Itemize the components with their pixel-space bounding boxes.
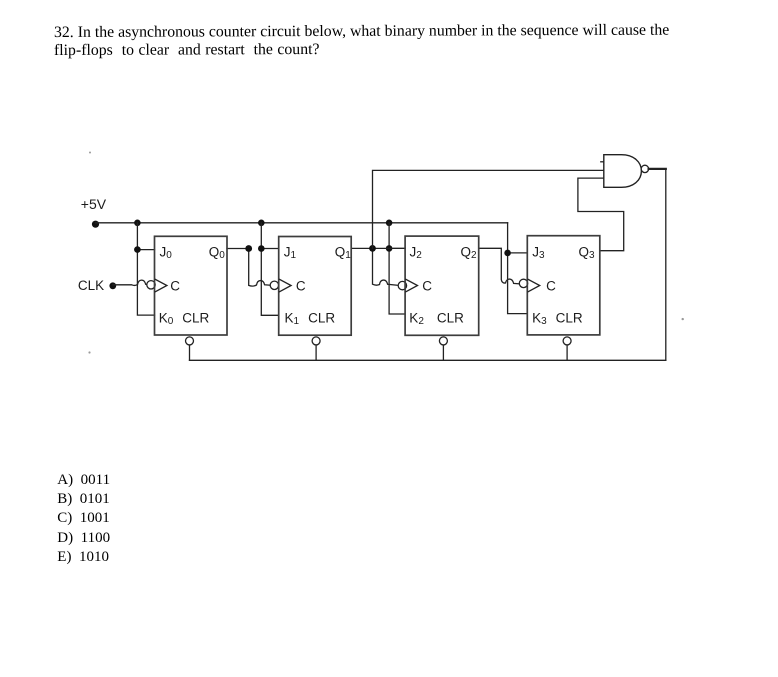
wire: Q1 up to NAND input A <box>373 170 604 248</box>
FF0 clock bubble <box>147 281 155 289</box>
svg-text:Q1: Q1 <box>335 245 352 262</box>
wire: +5V drop to J2/K2 <box>389 223 405 314</box>
answer D <box>57 530 110 547</box>
svg-text:K2CLR: K2CLR <box>409 310 464 327</box>
flip-flop U3 box <box>527 236 600 335</box>
svg-text:J0: J0 <box>160 245 173 262</box>
+5V terminal dot <box>92 221 99 228</box>
junction on rail at FF1 drop <box>258 220 265 227</box>
FF2 CLR bubble <box>439 337 447 345</box>
wire: Q1 to J2 rail segment <box>351 247 405 249</box>
svg-text:K0CLR: K0CLR <box>159 310 210 327</box>
question text line 1 <box>53 22 668 42</box>
answer C <box>57 510 110 527</box>
svg-text:C: C <box>422 278 432 293</box>
wire: riser to FF1 CLR <box>315 345 317 360</box>
FF0 clock triangle <box>155 279 167 292</box>
FF1 CLR bubble <box>312 337 320 345</box>
NAND gate U1 body <box>604 155 642 188</box>
wire: +5V drop to J3/K3 <box>508 223 528 314</box>
FF1 clock bubble <box>270 281 278 289</box>
wire: +5V power rail <box>96 222 508 224</box>
junction at J1 wire <box>258 245 265 252</box>
FF0 CLR bubble <box>186 337 194 345</box>
FF3 clock bubble <box>519 279 527 287</box>
junction at Q0 <box>245 245 252 252</box>
wire: Q0 to FF1 clock <box>227 249 270 287</box>
svg-text:K3CLR: K3CLR <box>532 310 583 327</box>
NAND output bubble <box>641 165 648 172</box>
wire: NAND output down right side <box>665 169 667 360</box>
junction on rail at FF0 drop <box>134 220 141 227</box>
junction on rail at FF2 drop <box>386 220 393 227</box>
flip-flop U2 box <box>405 236 479 335</box>
svg-text:Q3: Q3 <box>579 245 596 262</box>
flip-flop U1 box <box>279 237 352 336</box>
answer E <box>57 549 109 566</box>
CLK terminal dot <box>109 282 116 289</box>
answer A <box>57 472 110 489</box>
svg-text:C: C <box>296 278 306 293</box>
FF2 clock triangle <box>406 279 418 292</box>
svg-text:K1CLR: K1CLR <box>285 310 336 327</box>
speck artifact top-left <box>89 152 91 154</box>
FF3 CLR bubble <box>563 337 571 345</box>
wire: riser to FF3 CLR <box>566 345 568 360</box>
wire: +5V drop to J1/K1 <box>261 223 278 315</box>
svg-text:+5V: +5V <box>81 196 107 212</box>
wire: CLR bus <box>190 359 666 361</box>
speck artifact right <box>682 318 684 320</box>
svg-text:Q2: Q2 <box>461 245 478 262</box>
wire: Q1 down to FF2 clock (with squiggle) <box>373 248 399 285</box>
svg-text:C: C <box>170 278 180 293</box>
junction at J2 wire <box>386 245 393 252</box>
wire: riser to FF2 CLR <box>442 345 444 360</box>
wire: Q3 to NAND input B <box>578 178 624 251</box>
question text line 2 <box>53 41 319 60</box>
wire: Q2 to FF3 clock <box>479 248 520 283</box>
svg-text:J1: J1 <box>284 245 297 262</box>
speck artifact bottom-left <box>88 351 90 353</box>
wire: riser to FF0 CLR <box>189 345 191 360</box>
FF3 clock triangle <box>528 279 540 292</box>
NAND input stub artifact <box>601 161 604 163</box>
answer B <box>57 491 110 508</box>
wire: CLK to FF0 clock (with squiggle) <box>113 280 147 285</box>
svg-text:CLK: CLK <box>78 278 104 293</box>
FF2 clock bubble <box>398 281 406 289</box>
junction at J0 wire <box>134 246 141 253</box>
FF1 clock triangle <box>280 279 292 292</box>
svg-text:J3: J3 <box>532 245 545 262</box>
wire: NAND output stub <box>649 168 666 170</box>
svg-text:C: C <box>546 278 556 293</box>
svg-text:J2: J2 <box>410 245 423 262</box>
flip-flop U0 box <box>155 236 228 335</box>
wire: +5V drop to J0/K0 <box>137 223 154 315</box>
svg-text:Q0: Q0 <box>209 245 226 262</box>
junction at J3 wire <box>504 250 511 257</box>
junction Q1/NAND vertical <box>369 245 376 252</box>
